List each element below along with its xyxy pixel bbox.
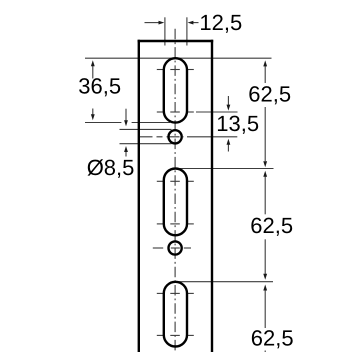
svg-text:62,5: 62,5: [250, 213, 293, 238]
svg-text:62,5: 62,5: [248, 82, 291, 107]
svg-text:Ø8,5: Ø8,5: [87, 155, 135, 180]
svg-text:13,5: 13,5: [216, 111, 259, 136]
svg-text:62,5: 62,5: [251, 326, 294, 351]
svg-text:12,5: 12,5: [199, 10, 242, 35]
svg-text:36,5: 36,5: [78, 74, 121, 99]
